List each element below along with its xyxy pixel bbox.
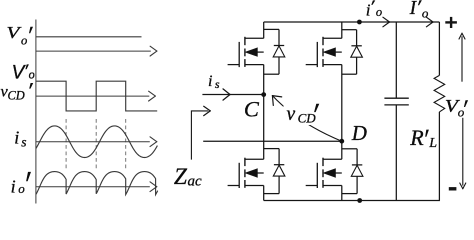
svg-text:CD: CD [8,89,25,103]
svg-text:D: D [351,121,367,145]
svg-text:i: i [14,128,19,148]
svg-text:o: o [458,105,465,120]
svg-text:v: v [287,104,296,125]
svg-text:Z: Z [174,164,188,190]
svg-text:ac: ac [188,174,203,190]
svg-text:i: i [11,177,16,197]
svg-text:o: o [376,5,382,19]
svg-text:o: o [21,34,27,48]
svg-text:R: R [409,125,424,150]
svg-text:o: o [422,6,429,21]
svg-text:C: C [244,97,260,122]
svg-text:s: s [215,77,220,91]
svg-text:i: i [208,73,212,90]
svg-text:CD: CD [298,111,317,126]
svg-text:o: o [18,181,25,196]
svg-text:L: L [428,136,437,151]
svg-text:i: i [366,0,371,19]
svg-text:s: s [21,134,26,149]
svg-text:o: o [29,69,35,81]
